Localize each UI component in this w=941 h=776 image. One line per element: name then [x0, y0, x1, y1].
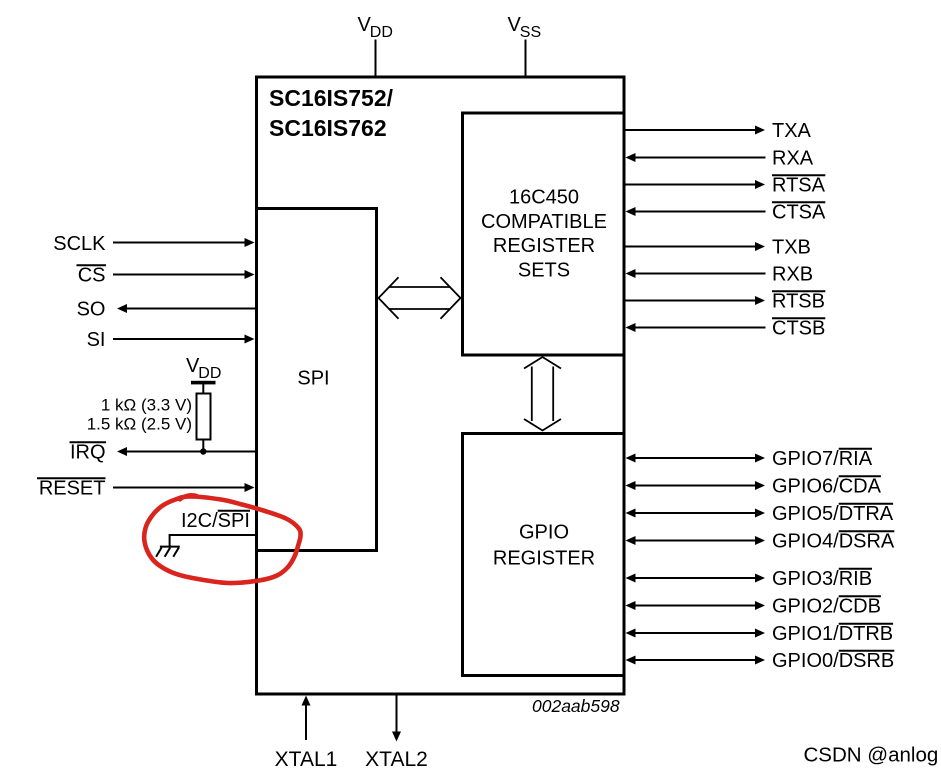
bus arrow 16C450 to GPIO (bidirectional open arrow) — [524, 357, 561, 431]
pin label RESET (active low) — [37, 478, 106, 500]
wire SO output with arrowhead — [117, 304, 257, 313]
svg-text:XTAL1: XTAL1 — [275, 748, 338, 771]
wire VDD to chip top — [375, 40, 377, 77]
pin label CTSA (active low) — [772, 202, 826, 224]
wire GPIO5 bidirectional with arrowheads — [626, 509, 766, 518]
svg-text:I2C/SPI: I2C/SPI — [181, 510, 250, 532]
svg-text:1 kΩ (3.3 V): 1 kΩ (3.3 V) — [101, 396, 192, 415]
resistor R1 pull-up 1 kOhm — [197, 394, 211, 440]
power label VDD (pull-up supply) — [186, 355, 221, 382]
svg-text:REGISTER: REGISTER — [493, 235, 595, 257]
svg-text:COMPATIBLE: COMPATIBLE — [481, 211, 607, 233]
svg-text:SI: SI — [87, 329, 106, 351]
svg-text:SO: SO — [77, 299, 106, 321]
svg-text:GPIO2/CDB: GPIO2/CDB — [772, 596, 881, 618]
svg-text:CS: CS — [78, 265, 106, 287]
ground symbol — [156, 547, 180, 557]
pin label RTSB (active low) — [772, 291, 825, 313]
wire IRQ output with arrowhead — [117, 447, 257, 456]
block GPIO register — [463, 434, 625, 676]
junction dot — [200, 448, 206, 454]
svg-text:GPIO6/CDA: GPIO6/CDA — [772, 476, 882, 498]
svg-text:GPIO1/DTRB: GPIO1/DTRB — [772, 623, 893, 645]
pin label GPIO2/CDB (CDB active low) — [772, 596, 881, 618]
svg-text:CTSA: CTSA — [772, 202, 826, 224]
wire GPIO3 bidirectional with arrowheads — [626, 574, 766, 583]
svg-text:IRQ: IRQ — [70, 442, 106, 464]
block label 16C450 COMPATIBLE REGISTER SETS — [481, 187, 607, 282]
svg-text:XTAL2: XTAL2 — [365, 748, 428, 771]
block outer chip SC16IS752/SC16IS762 — [257, 77, 625, 694]
wire GPIO4 bidirectional with arrowheads — [626, 536, 766, 545]
wire XTAL1 input with arrowhead — [302, 696, 311, 741]
wire CTSA input with arrowhead — [626, 207, 766, 216]
svg-text:DD: DD — [370, 24, 393, 41]
wire GPIO0 bidirectional with arrowheads — [626, 656, 766, 665]
svg-text:RXB: RXB — [772, 264, 813, 286]
svg-text:SC16IS752/: SC16IS752/ — [269, 85, 394, 111]
wire CTSB input with arrowhead — [626, 323, 766, 332]
power pin VSS label — [508, 14, 542, 41]
svg-text:GPIO7/RIA: GPIO7/RIA — [772, 448, 873, 470]
power pin VDD label — [358, 14, 393, 41]
pin label GPIO3/RIB (RIB active low) — [772, 568, 872, 590]
svg-text:SETS: SETS — [518, 259, 570, 281]
block 16C450 compatible register sets — [463, 113, 625, 355]
svg-text:SPI: SPI — [297, 368, 329, 390]
svg-text:DD: DD — [198, 365, 221, 382]
wire RTSB output with arrowhead — [626, 296, 766, 305]
pin label GPIO6/CDA (CDA active low) — [772, 476, 882, 498]
block label GPIO REGISTER — [493, 522, 595, 570]
pin label CS (active low) — [77, 265, 107, 287]
pin label GPIO1/DTRB (DTRB active low) — [772, 623, 893, 645]
wire TXB output with arrowhead — [626, 242, 766, 251]
svg-text:RTSA: RTSA — [772, 175, 826, 197]
pin label RTSA (active low) — [772, 175, 826, 197]
wire supply bar to resistor — [202, 384, 204, 394]
pin label GPIO0/DSRB (DSRB active low) — [772, 650, 894, 672]
wire SCLK input with arrowhead — [113, 238, 255, 247]
chip title SC16IS752/SC16IS762 — [269, 85, 394, 141]
svg-text:CSDN @anlog: CSDN @anlog — [804, 744, 939, 767]
supply rail bar — [191, 381, 216, 385]
bus arrow SPI to 16C450 (bidirectional open arrow) — [379, 277, 461, 318]
wire VSS to chip top — [525, 40, 527, 77]
wire GPIO7 bidirectional with arrowheads — [626, 454, 766, 463]
svg-text:SCLK: SCLK — [53, 233, 106, 255]
wire RXA input with arrowhead — [626, 153, 766, 162]
svg-text:GPIO: GPIO — [519, 522, 569, 544]
annotation red stroke overlap nub — [180, 495, 197, 499]
pin label GPIO7/RIA (RIA active low) — [772, 448, 873, 470]
svg-text:TXA: TXA — [772, 120, 812, 142]
svg-text:RXA: RXA — [772, 148, 814, 170]
svg-text:RESET: RESET — [39, 478, 106, 500]
svg-text:GPIO3/RIB: GPIO3/RIB — [772, 568, 872, 590]
wire XTAL2 output with arrowhead — [392, 696, 401, 742]
wire GPIO6 bidirectional with arrowheads — [626, 481, 766, 490]
pin label I2C/SPI select — [181, 510, 250, 532]
svg-text:GPIO5/DTRA: GPIO5/DTRA — [772, 503, 894, 525]
wire SI input with arrowhead — [113, 335, 255, 344]
wire I2C/SPI to ground — [170, 534, 257, 547]
wire CS input with arrowhead — [113, 270, 255, 279]
svg-text:TXB: TXB — [772, 237, 811, 259]
pin label CTSB (active low) — [772, 318, 825, 340]
svg-text:RTSB: RTSB — [772, 291, 825, 313]
wire TXA output with arrowhead — [626, 126, 766, 135]
svg-text:SC16IS762: SC16IS762 — [269, 115, 387, 141]
block SPI interface — [257, 209, 377, 551]
wire resistor to IRQ net — [202, 440, 204, 452]
pin label GPIO4/DSRA (DSRA active low) — [772, 531, 895, 553]
pin label IRQ (active low) — [70, 442, 107, 464]
wire GPIO2 bidirectional with arrowheads — [626, 601, 766, 610]
svg-text:REGISTER: REGISTER — [493, 548, 595, 570]
wire RTSA output with arrowhead — [626, 180, 766, 189]
svg-text:SS: SS — [520, 24, 541, 41]
svg-text:16C450: 16C450 — [509, 187, 579, 209]
resistor value label — [87, 396, 192, 434]
wire RXB input with arrowhead — [626, 269, 766, 278]
svg-text:GPIO4/DSRA: GPIO4/DSRA — [772, 531, 895, 553]
svg-text:GPIO0/DSRB: GPIO0/DSRB — [772, 650, 894, 672]
wire GPIO1 bidirectional with arrowheads — [626, 629, 766, 638]
annotation red circle around I2C/SPI tie-off — [144, 497, 300, 584]
pin label GPIO5/DTRA (DTRA active low) — [772, 503, 894, 525]
wire RESET input with arrowhead — [113, 483, 255, 492]
svg-text:CTSB: CTSB — [772, 318, 825, 340]
svg-text:1.5 kΩ (2.5 V): 1.5 kΩ (2.5 V) — [87, 415, 192, 434]
svg-text:002aab598: 002aab598 — [532, 696, 620, 716]
